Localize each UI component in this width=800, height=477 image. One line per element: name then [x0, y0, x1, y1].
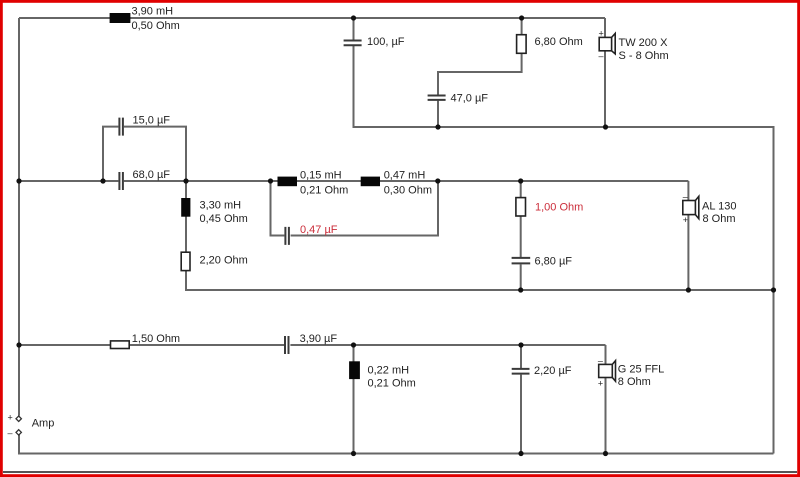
svg-text:2,20 Ohm: 2,20 Ohm: [200, 255, 248, 267]
svg-text:0,50 Ohm: 0,50 Ohm: [132, 20, 180, 32]
svg-text:47,0 µF: 47,0 µF: [451, 93, 489, 105]
svg-text:0,47 µF: 0,47 µF: [300, 224, 338, 236]
svg-text:100, µF: 100, µF: [367, 36, 405, 48]
svg-text:8 Ohm: 8 Ohm: [703, 213, 736, 225]
svg-text:8 Ohm: 8 Ohm: [618, 376, 651, 388]
svg-text:AL 130: AL 130: [702, 200, 736, 212]
svg-text:S - 8 Ohm: S - 8 Ohm: [619, 50, 669, 62]
svg-text:0,30 Ohm: 0,30 Ohm: [384, 185, 432, 197]
svg-text:Amp: Amp: [32, 418, 55, 430]
svg-text:0,21 Ohm: 0,21 Ohm: [300, 185, 348, 197]
svg-text:–: –: [598, 356, 603, 366]
svg-text:3,30 mH: 3,30 mH: [200, 200, 242, 212]
svg-text:TW 200 X: TW 200 X: [619, 37, 669, 49]
svg-text:0,21 Ohm: 0,21 Ohm: [368, 377, 416, 389]
svg-text:68,0 µF: 68,0 µF: [133, 169, 171, 181]
svg-text:0,22 mH: 0,22 mH: [368, 365, 410, 377]
svg-text:+: +: [683, 215, 688, 225]
svg-text:3,90 µF: 3,90 µF: [300, 333, 338, 345]
svg-text:–: –: [683, 192, 688, 202]
svg-text:+: +: [8, 413, 13, 423]
svg-text:+: +: [599, 29, 604, 39]
svg-text:6,80 µF: 6,80 µF: [535, 256, 573, 268]
svg-text:6,80 Ohm: 6,80 Ohm: [535, 36, 583, 48]
svg-text:G 25 FFL: G 25 FFL: [618, 363, 664, 375]
svg-text:15,0 µF: 15,0 µF: [133, 115, 171, 127]
svg-text:1,00 Ohm: 1,00 Ohm: [535, 202, 583, 214]
svg-text:0,47 mH: 0,47 mH: [384, 170, 426, 182]
svg-text:0,45 Ohm: 0,45 Ohm: [200, 213, 248, 225]
svg-text:0,15 mH: 0,15 mH: [300, 170, 342, 182]
svg-text:–: –: [8, 428, 13, 438]
svg-text:1,50 Ohm: 1,50 Ohm: [132, 333, 180, 345]
svg-text:3,90 mH: 3,90 mH: [132, 6, 174, 18]
svg-text:2,20 µF: 2,20 µF: [534, 365, 572, 377]
svg-text:–: –: [599, 51, 604, 61]
svg-text:+: +: [598, 378, 603, 388]
